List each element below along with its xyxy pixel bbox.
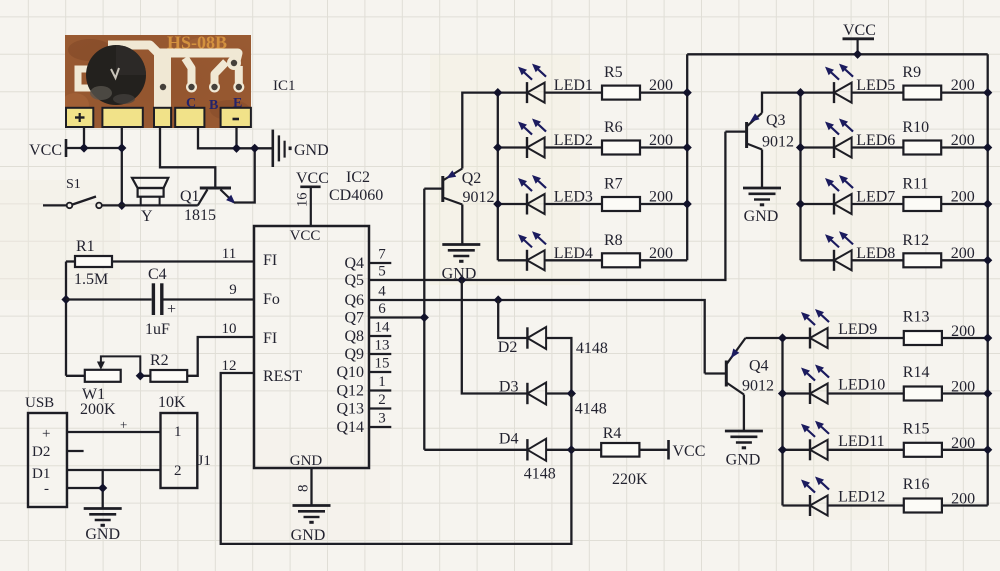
svg-text:220K: 220K — [612, 471, 648, 488]
svg-text:B: B — [209, 98, 218, 113]
wire Q6 to Q4 base — [369, 300, 705, 374]
svg-text:D2: D2 — [32, 444, 50, 460]
wire R2 to wiper junction — [140, 375, 150, 377]
junction R13 right bus — [983, 333, 992, 342]
junction Q5/D3 branch — [457, 275, 466, 284]
svg-text:R4: R4 — [603, 425, 622, 442]
svg-text:12: 12 — [222, 358, 237, 374]
IC2 pin Q13 (pin 2) — [336, 392, 391, 418]
svg-text:GND: GND — [744, 208, 779, 225]
svg-text:200: 200 — [951, 435, 975, 452]
junction Q6/D2 branch — [494, 295, 503, 304]
svg-text:2: 2 — [378, 392, 386, 408]
svg-text:R1: R1 — [76, 238, 95, 255]
svg-text:Y: Y — [141, 208, 153, 225]
svg-text:R7: R7 — [604, 176, 623, 193]
svg-text:CD4060: CD4060 — [329, 187, 383, 204]
svg-text:10K: 10K — [158, 394, 186, 411]
ground symbol below Q3 — [743, 188, 781, 225]
svg-text:+: + — [167, 301, 176, 318]
svg-text:8: 8 — [296, 485, 312, 493]
VCC power symbol (top) — [843, 22, 876, 54]
svg-text:R13: R13 — [903, 309, 930, 326]
resistor R7 (200) — [545, 176, 688, 212]
resistor R1 — [66, 238, 112, 288]
transistor Q4 (9012 PNP) — [705, 338, 774, 395]
transistor Q2 (9012 PNP) — [424, 169, 494, 207]
svg-text:13: 13 — [375, 338, 390, 354]
svg-text:200: 200 — [649, 132, 673, 149]
IC2 CD4060 body — [254, 226, 369, 468]
LED11 — [783, 421, 885, 461]
resistor R13 (200) — [828, 309, 988, 346]
svg-text:R16: R16 — [903, 476, 930, 493]
svg-text:2: 2 — [174, 463, 182, 479]
wire USB D1 to J1 pin2 — [67, 469, 161, 471]
svg-text:4: 4 — [378, 284, 386, 300]
svg-text:GND: GND — [726, 452, 761, 469]
svg-text:Q12: Q12 — [336, 383, 364, 400]
svg-text:D1: D1 — [32, 466, 50, 482]
junction LED1 left bus — [493, 88, 502, 97]
switch S1 — [43, 177, 102, 208]
svg-text:HS-08B: HS-08B — [167, 33, 227, 53]
svg-text:D4: D4 — [499, 431, 519, 448]
IC2 pin Q5 (pin 5) — [344, 264, 385, 290]
junction pad5/ground rail — [232, 144, 241, 153]
wire Q2 emitter up to LED bus — [462, 93, 498, 169]
IC2 pin Q7 (pin 6) — [344, 301, 386, 327]
wire pin 10 to R2 — [187, 337, 254, 376]
pad - (pin 5 of module) — [221, 108, 251, 127]
svg-text:1uF: 1uF — [145, 321, 170, 338]
pad 2 of module — [102, 108, 142, 127]
junction pad1/VCC — [79, 143, 88, 152]
junction Q1 emitter/ground rail — [250, 144, 259, 153]
svg-text:R14: R14 — [903, 364, 930, 381]
resistor R9 (200) — [852, 64, 988, 100]
svg-text:VCC: VCC — [296, 170, 329, 187]
IC2 pin Q14 (pin 3) — [336, 411, 391, 437]
junction R12 right bus — [983, 256, 992, 265]
svg-text:R15: R15 — [903, 420, 930, 437]
junction left bus / C4 — [61, 295, 70, 304]
wire D3 to diode bus — [546, 392, 571, 394]
junction LED4 left bus corner — [0, 0, 1, 1]
VCC power symbol (right of R4) — [669, 440, 706, 460]
svg-text:200: 200 — [951, 491, 975, 508]
wire Q5 to Q3 base — [369, 132, 725, 280]
svg-text:VCC: VCC — [673, 443, 706, 460]
IC2 pin name VCC — [290, 228, 321, 244]
svg-text:5: 5 — [378, 264, 386, 280]
svg-text:LED10: LED10 — [838, 377, 885, 394]
svg-text:IC2: IC2 — [346, 169, 370, 186]
svg-text:Q3: Q3 — [766, 112, 786, 129]
svg-text:GND: GND — [294, 142, 329, 159]
svg-text:4148: 4148 — [576, 340, 608, 357]
svg-text:LED9: LED9 — [838, 321, 877, 338]
wire R4 to VCC — [639, 449, 668, 451]
wire Q2 collector to ground — [461, 205, 463, 245]
junction LED11 left bus — [778, 445, 787, 454]
svg-text:1: 1 — [378, 374, 386, 390]
svg-text:R8: R8 — [604, 232, 623, 249]
wire Q5 branch down to D3 — [462, 280, 528, 394]
svg-text:R12: R12 — [902, 232, 929, 249]
svg-text:LED11: LED11 — [838, 433, 885, 450]
wire D4 to diode bus — [546, 449, 571, 451]
svg-text:Q5: Q5 — [344, 272, 364, 289]
svg-text:11: 11 — [222, 246, 236, 262]
svg-text:R9: R9 — [902, 64, 921, 81]
svg-text:200: 200 — [951, 132, 975, 149]
pin number 11 — [222, 246, 236, 262]
wire Q3 emitter up to LED5 bus — [762, 93, 801, 113]
ground symbol below Q4 — [725, 431, 763, 469]
svg-text:200: 200 — [649, 245, 673, 262]
svg-text:FI: FI — [263, 252, 277, 269]
junction R5 right bus — [683, 88, 692, 97]
IC2 pin name Fo (9) — [263, 291, 280, 308]
svg-text:J1: J1 — [198, 453, 211, 469]
svg-text:6: 6 — [378, 301, 386, 317]
capacitor C4 (1uF electrolytic) — [66, 266, 176, 338]
wire Q3 collector to ground — [761, 150, 763, 188]
resistor R12 (200) — [852, 232, 988, 267]
wire left bus (R1/C4/W1) — [65, 262, 67, 376]
resistor R14 (200) — [828, 364, 988, 401]
junction pad2/VCC wire — [117, 143, 126, 152]
LED5 — [801, 64, 896, 104]
wire LED1-4 left bus — [497, 93, 499, 261]
junction Q7 node — [420, 313, 429, 322]
junction R15 right bus — [983, 445, 992, 454]
junction R9 right bus — [983, 88, 992, 97]
wire C4 to pin 9 — [164, 298, 255, 300]
ground symbol below USB — [84, 509, 122, 544]
svg-text:D2: D2 — [498, 339, 518, 356]
svg-text:200: 200 — [951, 189, 975, 206]
IC2 labels — [329, 169, 383, 204]
wire diode bus D3-D4 — [570, 394, 572, 450]
USB connector — [25, 395, 67, 507]
svg-text:9012: 9012 — [762, 134, 794, 151]
resistor R10 (200) — [852, 119, 988, 155]
junction R11 right bus — [983, 199, 992, 208]
svg-text:200: 200 — [649, 77, 673, 94]
LED4 — [498, 231, 593, 270]
svg-text:10: 10 — [222, 321, 237, 337]
tint patches — [0, 55, 890, 550]
IC2 pin Q6 (pin 4) — [344, 284, 386, 310]
svg-text:Q2: Q2 — [462, 170, 482, 187]
junction R10 right bus — [983, 143, 992, 152]
wire switch to Q1 collector — [102, 204, 198, 206]
svg-text:Q14: Q14 — [336, 419, 364, 436]
svg-text:200K: 200K — [80, 401, 116, 418]
PCB module IC1 (HS-08B sound module photo) — [61, 33, 251, 129]
svg-text:1: 1 — [174, 424, 182, 440]
svg-text:R6: R6 — [604, 119, 623, 136]
wire Q4 emitter to LED9 bus — [746, 337, 783, 339]
wire LED5-8 left bus — [799, 93, 801, 261]
junction W1 wiper / R2 — [136, 371, 145, 380]
svg-text:VCC: VCC — [290, 228, 321, 244]
svg-text:7: 7 — [378, 247, 386, 263]
svg-text:Q6: Q6 — [344, 292, 364, 309]
LED1 — [498, 64, 593, 104]
LED9 — [783, 309, 878, 349]
svg-text:9012: 9012 — [463, 189, 495, 206]
potentiometer W1 (200K) — [66, 356, 140, 418]
ground symbol below IC2 — [291, 506, 331, 545]
wire Q4 collector to ground — [743, 395, 745, 431]
wire pad3 to Q1 base — [160, 128, 215, 187]
diode D4 (4148) — [499, 431, 556, 483]
svg-text:+: + — [42, 426, 50, 442]
wire far right bus — [987, 54, 989, 505]
wire R1 to pin 11 — [112, 260, 254, 262]
LED2 — [498, 119, 593, 159]
wire pad1 down — [83, 128, 85, 148]
junction LED7 left bus — [796, 199, 805, 208]
IC2 pin Q10 (pin 15) — [336, 356, 391, 382]
svg-text:R10: R10 — [902, 119, 929, 136]
resistor R11 (200) — [852, 176, 988, 212]
svg-text:GND: GND — [290, 453, 323, 469]
pad + (pin 1 of module) — [66, 108, 93, 127]
pin number 12 — [222, 358, 237, 374]
pad C/B (pin 4 of module) — [175, 108, 204, 127]
IC2 pin Q12 (pin 1) — [336, 374, 391, 400]
junction LED9 left bus — [778, 333, 787, 342]
wire D2 to diode bus — [546, 338, 571, 394]
wire USB+ to J1 pin1 — [67, 417, 161, 432]
diode D2 (4148) — [498, 327, 608, 357]
svg-text:S1: S1 — [66, 177, 81, 192]
resistor R5 (200) — [545, 64, 688, 100]
junction R7 right bus — [683, 199, 692, 208]
transistor Q3 (9012 PNP) — [725, 112, 794, 151]
junction USB -/D1/GND — [98, 483, 107, 492]
wire pad4 to ground rail — [198, 128, 273, 148]
svg-text:Q10: Q10 — [336, 364, 364, 381]
speaker Y — [132, 178, 168, 225]
svg-text:Q8: Q8 — [344, 328, 364, 345]
junction VCC/top rail — [853, 50, 862, 59]
junction R6 right bus — [683, 143, 692, 152]
wire USB D2 stub — [67, 450, 84, 452]
wire USB - to GND — [67, 470, 103, 508]
svg-text:FI: FI — [263, 330, 277, 347]
svg-text:Q4: Q4 — [749, 358, 769, 375]
svg-text:200: 200 — [951, 77, 975, 94]
IC2 GND pin stem — [296, 468, 312, 505]
svg-text:REST: REST — [263, 368, 302, 385]
wire VCC to pads — [66, 147, 122, 149]
svg-text:VCC: VCC — [29, 142, 62, 159]
ground symbol below Q2 — [442, 245, 481, 283]
resistor R2 — [150, 352, 187, 382]
resistor R6 (200) — [545, 119, 688, 155]
svg-text:Q4: Q4 — [344, 255, 364, 272]
transistor Q1 (C1815 NPN) — [180, 188, 235, 224]
wire pad5 down — [235, 128, 237, 148]
svg-text:9: 9 — [229, 282, 237, 298]
LED8 — [801, 231, 896, 270]
svg-text:Q7: Q7 — [344, 310, 364, 327]
wire Q7 to Q2 base and D4 — [369, 189, 527, 450]
wire Q1 emitter to ground rail — [234, 148, 255, 202]
svg-text:USB: USB — [25, 395, 54, 411]
junction diode bus/D3 — [567, 389, 576, 398]
junction LED5 left bus — [796, 88, 805, 97]
pad 3 of module — [154, 108, 171, 127]
pin number 9 — [229, 282, 237, 298]
svg-text:3: 3 — [378, 411, 386, 427]
svg-text:D3: D3 — [499, 379, 519, 396]
wire top VCC rail — [687, 53, 988, 55]
connector J1 (10K) — [158, 394, 211, 488]
svg-text:14: 14 — [375, 320, 391, 336]
wire pad2 down to switch line — [121, 128, 123, 205]
LED10 — [783, 365, 886, 405]
LED12 — [783, 477, 886, 517]
svg-text:200: 200 — [951, 245, 975, 262]
IC2 pin name FI (11) — [263, 252, 277, 269]
IC2 pin Q4 (pin 7) — [344, 247, 391, 273]
LED6 — [801, 119, 896, 159]
svg-text:-: - — [44, 481, 49, 497]
svg-text:15: 15 — [375, 356, 390, 372]
IC2 pin name FI (10) — [263, 330, 277, 347]
svg-text:C4: C4 — [148, 266, 167, 283]
svg-text:R11: R11 — [902, 176, 928, 193]
IC2 pin Q8 (pin 14) — [344, 320, 391, 346]
svg-text:Fo: Fo — [263, 291, 280, 308]
svg-text:9012: 9012 — [742, 378, 774, 395]
svg-text:200: 200 — [951, 323, 975, 340]
svg-text:R2: R2 — [150, 352, 169, 369]
svg-text:VCC: VCC — [843, 22, 876, 39]
svg-text:LED12: LED12 — [838, 489, 885, 506]
label IC1 — [273, 78, 296, 94]
svg-text:4148: 4148 — [524, 466, 556, 483]
svg-text:GND: GND — [442, 266, 477, 283]
junction LED2 left bus — [493, 143, 502, 152]
pin number 10 — [222, 321, 237, 337]
svg-text:GND: GND — [291, 527, 326, 544]
svg-text:+: + — [120, 417, 127, 432]
svg-text:200: 200 — [649, 189, 673, 206]
svg-text:IC1: IC1 — [273, 78, 296, 94]
junction LED6 left bus — [796, 143, 805, 152]
IC2 pin name REST (12) — [263, 368, 302, 385]
wire LED9-12 left bus — [781, 338, 783, 506]
junction R14 right bus — [983, 389, 992, 398]
junction pad2/switch wire — [117, 201, 126, 210]
LED7 — [801, 175, 896, 215]
svg-text:Q9: Q9 — [344, 346, 364, 363]
svg-text:Q13: Q13 — [336, 401, 364, 418]
svg-text:4148: 4148 — [575, 401, 607, 418]
svg-text:1815: 1815 — [184, 207, 216, 224]
wire Q6 branch down to D2 — [498, 300, 527, 338]
svg-text:GND: GND — [85, 526, 120, 543]
wire LED1-4 right bus — [686, 54, 688, 260]
junction LED10 left bus — [778, 389, 787, 398]
junction diode bus/D4/R4 — [567, 445, 576, 454]
svg-text:16: 16 — [295, 193, 311, 208]
VCC power symbol (left) — [29, 139, 66, 159]
junction LED3 left bus — [493, 199, 502, 208]
IC2 pin name GND — [290, 453, 323, 469]
resistor R15 (200) — [828, 420, 988, 457]
wire REST to bottom rail — [221, 373, 572, 544]
svg-text:200: 200 — [951, 379, 975, 396]
resistor R16 (200) — [828, 476, 988, 513]
junction LED8 left bus — [0, 0, 1, 1]
svg-text:Q1: Q1 — [180, 188, 200, 205]
IC2 pin Q9 (pin 13) — [344, 338, 391, 364]
LED3 — [498, 175, 593, 215]
svg-text:R5: R5 — [604, 64, 623, 81]
svg-text:1.5M: 1.5M — [74, 271, 108, 288]
resistor R8 (200) — [545, 232, 688, 267]
resistor R4 (220K) — [571, 425, 648, 488]
VCC power symbol above IC2 — [295, 170, 329, 226]
GND symbol (top, sideways) — [273, 130, 329, 167]
diode D3 (4148) — [499, 379, 607, 418]
